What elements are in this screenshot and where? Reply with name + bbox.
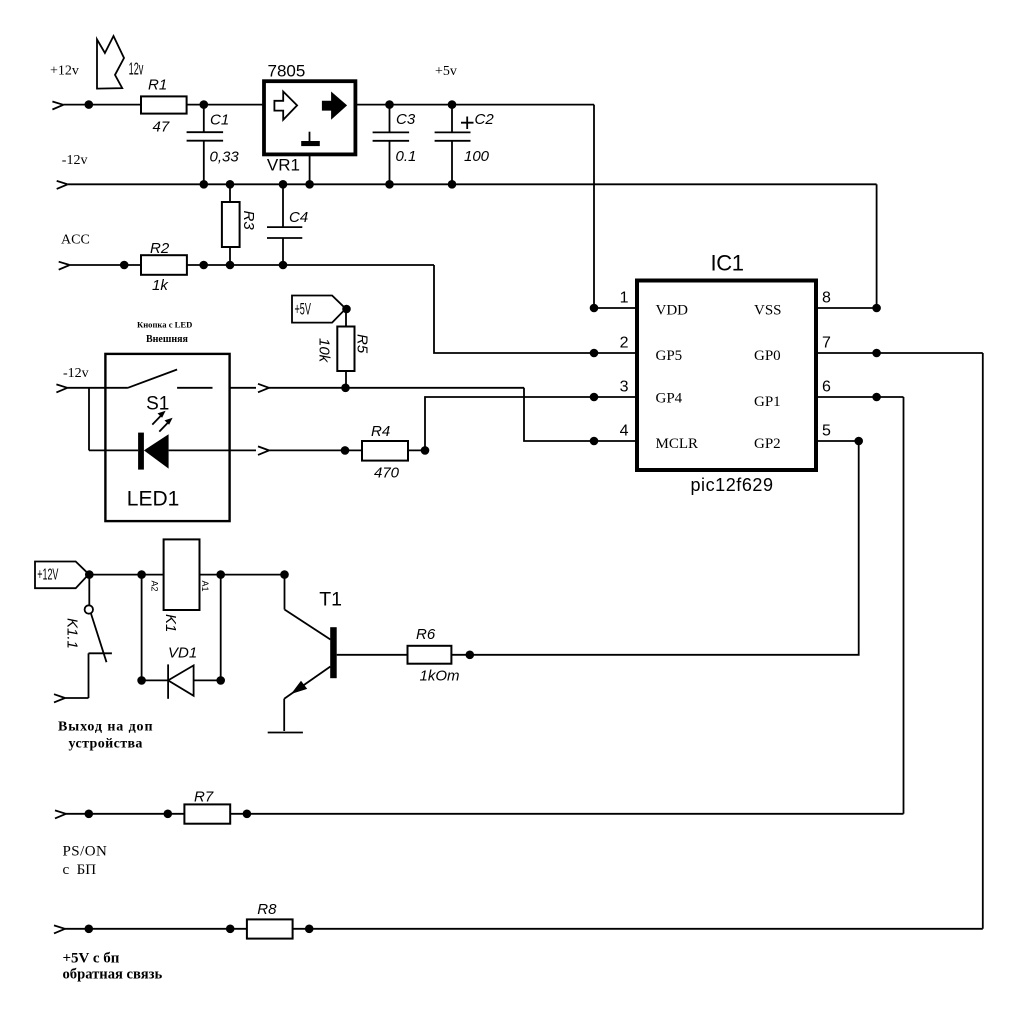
svg-text:4: 4 — [620, 423, 629, 440]
svg-text:R5: R5 — [354, 334, 371, 354]
svg-text:R8: R8 — [257, 901, 277, 918]
svg-text:10k: 10k — [316, 338, 333, 364]
svg-text:+12v: +12v — [50, 64, 79, 79]
svg-text:+5v: +5v — [435, 64, 457, 79]
svg-text:+12V: +12V — [37, 566, 59, 583]
svg-text:C3: C3 — [396, 111, 416, 128]
svg-text:1kOm: 1kOm — [420, 668, 460, 685]
svg-text:GP1: GP1 — [754, 394, 781, 410]
svg-text:обратная связь: обратная связь — [63, 967, 163, 983]
svg-text:47: 47 — [153, 119, 170, 136]
svg-text:A1: A1 — [200, 581, 210, 592]
svg-text:2: 2 — [620, 335, 629, 352]
svg-text:VD1: VD1 — [168, 645, 197, 662]
svg-text:C2: C2 — [475, 111, 495, 128]
svg-text:+5V с бп: +5V с бп — [63, 951, 120, 967]
svg-text:T1: T1 — [319, 588, 342, 610]
svg-text:6: 6 — [822, 379, 831, 396]
svg-text:1k: 1k — [152, 277, 169, 294]
svg-text:R6: R6 — [416, 626, 436, 643]
svg-text:устройства: устройства — [69, 737, 143, 752]
svg-text:MCLR: MCLR — [656, 436, 699, 452]
svg-text:1: 1 — [620, 290, 629, 307]
svg-text:12v: 12v — [129, 59, 144, 79]
svg-text:R2: R2 — [150, 240, 170, 257]
svg-text:GP0: GP0 — [754, 348, 781, 364]
svg-text:3: 3 — [620, 379, 629, 396]
svg-text:470: 470 — [374, 465, 400, 482]
svg-text:pic12f629: pic12f629 — [691, 475, 774, 495]
svg-text:7805: 7805 — [268, 62, 306, 81]
svg-text:K1: K1 — [162, 614, 179, 632]
svg-text:PS/ON: PS/ON — [63, 844, 108, 860]
svg-text:0.1: 0.1 — [396, 148, 417, 165]
svg-text:8: 8 — [822, 290, 831, 307]
svg-text:R1: R1 — [148, 76, 167, 93]
svg-text:C1: C1 — [210, 112, 229, 129]
svg-text:GP2: GP2 — [754, 436, 781, 452]
svg-text:+5V: +5V — [295, 299, 311, 318]
svg-text:VR1: VR1 — [267, 156, 300, 175]
svg-text:LED1: LED1 — [127, 487, 180, 510]
svg-text:0,33: 0,33 — [210, 148, 240, 165]
svg-text:VSS: VSS — [754, 303, 782, 319]
svg-text:GP4: GP4 — [656, 390, 683, 406]
svg-text:A2: A2 — [150, 581, 160, 592]
svg-text:5: 5 — [822, 423, 831, 440]
svg-text:S1: S1 — [146, 393, 169, 414]
svg-text:IC1: IC1 — [711, 250, 744, 275]
svg-text:-12v: -12v — [62, 153, 88, 168]
svg-text:7: 7 — [822, 335, 831, 352]
svg-text:C4: C4 — [289, 209, 308, 226]
svg-text:R7: R7 — [194, 789, 214, 806]
svg-text:100: 100 — [464, 148, 490, 165]
svg-text:R3: R3 — [240, 211, 257, 231]
svg-text:GP5: GP5 — [656, 348, 683, 364]
svg-text:R4: R4 — [371, 423, 390, 440]
svg-text:Внешняя: Внешняя — [146, 334, 188, 345]
svg-text:VDD: VDD — [656, 303, 689, 319]
svg-text:Кнопка с LED: Кнопка с LED — [137, 320, 192, 330]
svg-text:-12v: -12v — [63, 366, 89, 381]
svg-text:ACC: ACC — [61, 232, 90, 247]
svg-text:K1.1: K1.1 — [64, 618, 81, 649]
svg-text:Выход на доп: Выход на доп — [58, 720, 153, 735]
svg-text:с БП: с БП — [63, 862, 97, 878]
